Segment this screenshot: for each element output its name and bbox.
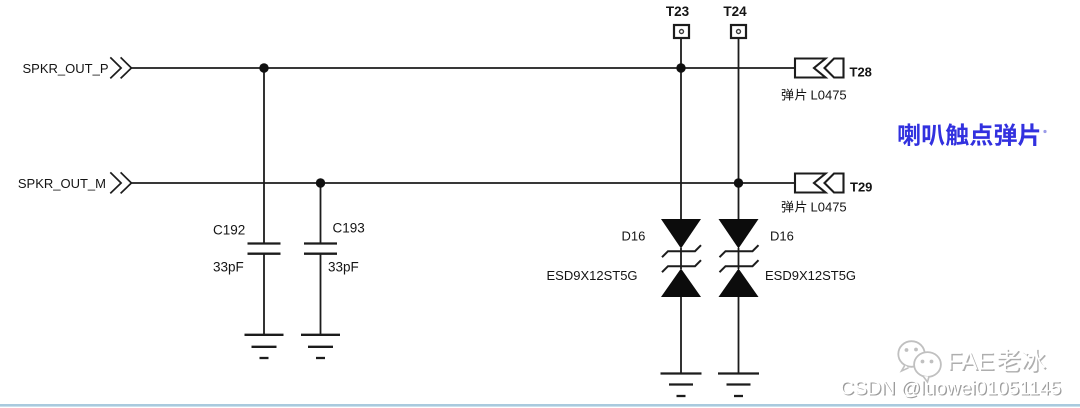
svg-text:C192: C192 (213, 223, 245, 238)
svg-text:D16: D16 (770, 229, 794, 244)
TVS diode D16 left (ESD9X12ST5G) (661, 219, 701, 374)
svg-text:ESD9X12ST5G: ESD9X12ST5G (765, 268, 856, 283)
svg-text:L0475: L0475 (811, 200, 847, 215)
wire C193 vertical drop (320, 183, 322, 244)
testpoint T24 symbol (731, 25, 746, 38)
svg-text:FAE: FAE (947, 348, 994, 376)
watermark wechat icon (898, 341, 941, 382)
bottom divider line (light blue) (0, 404, 1080, 407)
svg-text:T29: T29 (850, 180, 872, 195)
TVS diode D16 right (ESD9X12ST5G) (719, 219, 759, 374)
svg-text:C193: C193 (333, 221, 365, 236)
svg-text:CSDN @luowei01051145: CSDN @luowei01051145 (840, 377, 1061, 399)
annotation text 喇叭触点弹片 (blue) (899, 123, 1040, 146)
capacitor C192 plates (248, 244, 281, 254)
watermark text FAE老冰 (947, 348, 1047, 377)
watermark text CSDN @luowei01051145 (840, 377, 1063, 400)
connector T29 spring contact symbol (795, 174, 844, 193)
wire C192 to ground (263, 254, 265, 335)
svg-text:ESD9X12ST5G: ESD9X12ST5G (547, 268, 638, 283)
ground under C193 (301, 335, 340, 358)
svg-text:SPKR_OUT_P: SPKR_OUT_P (23, 61, 109, 76)
wire T23 vertical (680, 39, 682, 220)
svg-text:T28: T28 (850, 65, 872, 80)
svg-text:SPKR_OUT_M: SPKR_OUT_M (18, 176, 106, 191)
junction dot node SPKR_OUT_P / C192 (259, 63, 268, 72)
testpoint T23 symbol (674, 25, 689, 38)
wire T24 vertical (738, 39, 740, 220)
wire SPKR_OUT_P horizontal (131, 67, 797, 69)
ground under D16 right (718, 374, 759, 397)
connector T29 value 弹片 L0475 (782, 200, 847, 215)
ground under D16 left (661, 374, 702, 397)
input port chevron SPKR_OUT_M (110, 172, 131, 193)
ground under C192 (245, 335, 284, 358)
svg-text:T24: T24 (723, 4, 747, 19)
svg-text:D16: D16 (622, 229, 646, 244)
wire C193 to ground (320, 254, 322, 335)
svg-text:T23: T23 (666, 4, 690, 19)
connector T28 spring contact symbol (795, 59, 844, 78)
input port chevron SPKR_OUT_P (110, 57, 131, 78)
junction dot node SPKR_OUT_M / C193 (316, 178, 325, 187)
junction dot node SPKR_OUT_P / D16 left (676, 63, 685, 72)
svg-text:33pF: 33pF (328, 260, 359, 275)
wire SPKR_OUT_M horizontal (131, 182, 797, 184)
capacitor C193 plates (304, 244, 337, 254)
svg-text:33pF: 33pF (213, 260, 244, 275)
junction dot node SPKR_OUT_M / D16 right (734, 178, 743, 187)
annotation trailing faint dot (1043, 130, 1046, 133)
wire C192 vertical drop (263, 68, 265, 244)
connector T28 value 弹片 L0475 (782, 88, 847, 103)
svg-text:L0475: L0475 (811, 88, 847, 103)
